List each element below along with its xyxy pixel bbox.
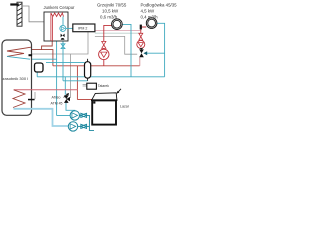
svg-text:Lazar: Lazar xyxy=(120,104,130,108)
svg-text:4,5 kW: 4,5 kW xyxy=(141,8,156,13)
svg-text:Tatarek: Tatarek xyxy=(98,84,109,88)
svg-text:Afriso: Afriso xyxy=(52,96,61,100)
svg-text:Junkers Cerapur: Junkers Cerapur xyxy=(44,5,76,10)
svg-text:Podłogówka 45/35: Podłogówka 45/35 xyxy=(141,2,178,7)
svg-text:IPM 2: IPM 2 xyxy=(78,27,87,31)
svg-text:0,6 m3/h: 0,6 m3/h xyxy=(100,14,118,19)
svg-text:Grzejniki 70/55: Grzejniki 70/55 xyxy=(97,2,127,7)
svg-text:0,4 m3/h: 0,4 m3/h xyxy=(141,14,159,19)
svg-text:10,5 kW: 10,5 kW xyxy=(102,8,119,13)
svg-text:zasobnik 300 l: zasobnik 300 l xyxy=(3,76,29,81)
svg-text:ATM 45: ATM 45 xyxy=(51,102,63,106)
